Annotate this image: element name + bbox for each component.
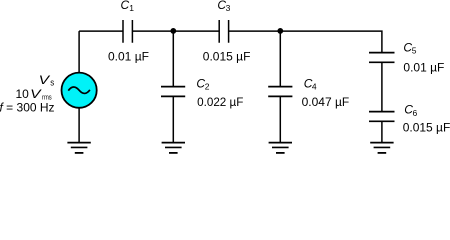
svg-text:0.01 µF: 0.01 µF bbox=[108, 50, 149, 64]
voltage source Vs bbox=[62, 73, 97, 108]
wire C5 to C6 bbox=[381, 62, 383, 111]
wire source bottom to ground bbox=[78, 108, 80, 143]
svg-text:6: 6 bbox=[413, 108, 418, 118]
label C6 bbox=[404, 103, 417, 118]
wire C3 to right branch bbox=[229, 30, 382, 52]
svg-text:0.01 µF: 0.01 µF bbox=[403, 60, 444, 74]
svg-text:5: 5 bbox=[412, 46, 417, 56]
svg-text:10: 10 bbox=[16, 87, 30, 101]
ground (C2) bbox=[162, 143, 185, 153]
svg-text:2: 2 bbox=[205, 82, 210, 92]
wire source top to C1 bbox=[79, 31, 123, 72]
label C2 bbox=[196, 77, 209, 92]
wire C4 tap down to C4 bbox=[279, 29, 281, 87]
svg-text:0.047 µF: 0.047 µF bbox=[302, 95, 350, 109]
ground (C4) bbox=[269, 143, 292, 153]
label C4 bbox=[304, 77, 317, 92]
capacitor C2 bbox=[161, 87, 185, 97]
wire C1 to C3 bbox=[133, 30, 220, 32]
svg-text:3: 3 bbox=[226, 3, 231, 13]
capacitor C4 bbox=[268, 87, 292, 97]
svg-text:0.015 µF: 0.015 µF bbox=[203, 50, 251, 64]
svg-text:4: 4 bbox=[312, 82, 317, 92]
capacitor C6 bbox=[369, 112, 395, 122]
svg-text:C: C bbox=[121, 0, 130, 12]
capacitor C5 bbox=[369, 53, 395, 63]
node junction dot (C2 tap) bbox=[170, 28, 176, 34]
capacitor C1 bbox=[123, 20, 132, 43]
label C3 bbox=[217, 0, 230, 13]
wire C2 to ground bbox=[172, 96, 174, 142]
svg-text:0.022 µF: 0.022 µF bbox=[197, 95, 243, 109]
label 10 Vrms (source amplitude) bbox=[16, 87, 52, 102]
capacitor C3 bbox=[219, 20, 228, 43]
label C1 bbox=[121, 0, 135, 13]
ground (source) bbox=[67, 143, 90, 153]
label C5 bbox=[403, 41, 416, 56]
wire C4 to ground bbox=[279, 96, 281, 142]
svg-text:V: V bbox=[30, 87, 42, 101]
svg-text:f = 300 Hz: f = 300 Hz bbox=[0, 100, 55, 114]
svg-text:V: V bbox=[39, 73, 51, 87]
svg-text:1: 1 bbox=[129, 3, 134, 13]
label Vs (source name) bbox=[39, 73, 55, 87]
ground (right branch) bbox=[370, 143, 393, 153]
svg-text:0.015 µF: 0.015 µF bbox=[403, 120, 450, 134]
wire C6 to ground bbox=[381, 121, 383, 142]
node junction dot (C4 tap) bbox=[277, 28, 283, 34]
wire C2 tap down to C2 bbox=[172, 29, 174, 87]
svg-text:s: s bbox=[50, 77, 54, 87]
